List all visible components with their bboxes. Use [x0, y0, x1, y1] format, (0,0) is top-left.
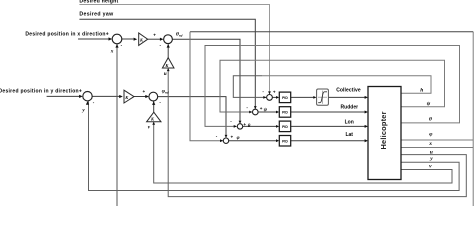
wire: theta feedback left drop into theta sum — [205, 46, 240, 127]
wire: y sum to Kp gain — [92, 95, 120, 97]
sum junction: phi sum — [223, 138, 228, 143]
arrowheads group — [79, 37, 368, 142]
wire: h feedback left drop into collective sum — [233, 76, 266, 98]
svg-text:PID: PID — [282, 96, 288, 100]
wire: PID1 to saturation — [291, 96, 314, 98]
svg-text:Helicopter: Helicopter — [379, 111, 388, 149]
svg-text:Desired position in y directio: Desired position in y direction+ — [0, 89, 82, 95]
svg-text:Lon: Lon — [345, 120, 354, 126]
svg-text:Desired position in x directio: Desired position in x direction+ — [25, 31, 109, 37]
wire: phi output of helicopter — [401, 139, 473, 141]
arrow into psi sum left — [249, 111, 252, 114]
svg-text:h: h — [420, 87, 423, 93]
wire: theta_ref from x inner sum down to theta sum — [172, 39, 240, 123]
arrow into saturation — [313, 96, 316, 99]
svg-text:PID: PID — [282, 111, 288, 115]
sum junction: y outer sum — [83, 92, 92, 101]
sum junction: theta sum — [237, 124, 242, 129]
arrow into helicopter rudder port — [365, 111, 368, 114]
PID controller 2 (rudder) — [279, 107, 290, 118]
svg-text:φ: φ — [237, 136, 240, 141]
sum junction: psi sum — [253, 109, 259, 115]
svg-text:x: x — [110, 48, 114, 54]
wire: h feedback loop right/top — [262, 76, 431, 94]
wire: Kp gain to x inner sum — [148, 38, 161, 40]
saturation block — [317, 89, 329, 105]
PID controller 1 (collective) — [279, 92, 290, 103]
svg-text:Rudder: Rudder — [341, 105, 359, 111]
svg-text:x: x — [428, 141, 432, 147]
arrow into phi sum top — [225, 135, 228, 138]
PID controller 3 (lon) — [279, 121, 290, 132]
svg-text:ψ: ψ — [427, 101, 431, 107]
arrow into theta sum top — [239, 121, 242, 124]
arrow into psi sum top — [254, 106, 257, 109]
svg-text:+: + — [231, 135, 234, 140]
arrow into PID1 — [276, 96, 279, 99]
wire: shared right edge vertical (phi up / x down) — [472, 32, 474, 206]
gain K (v feedback) — [147, 112, 161, 122]
gain Kp (y channel) — [124, 90, 134, 103]
arrow into x inner sum left — [160, 38, 164, 41]
gain Kp (x channel) — [139, 33, 148, 45]
svg-text:Desired height: Desired height — [79, 0, 118, 4]
svg-text:+: + — [243, 122, 246, 127]
PID controller 4 (lat) — [279, 136, 290, 147]
svg-text:y: y — [429, 156, 433, 162]
wire: theta sum to PID3 — [242, 125, 276, 127]
arrow into helicopter lat port — [365, 139, 368, 142]
svg-text:PID: PID — [282, 125, 288, 129]
arrow into x inner sum bottom — [167, 44, 170, 48]
wire: u K gain to x inner sum — [167, 44, 169, 58]
wire: y Kp gain to y inner sum — [134, 96, 146, 98]
wire: v feedback loop from helicopter v output to K gain — [154, 122, 452, 183]
gain K (u feedback) — [162, 58, 174, 68]
wire: y feedback loop from helicopter y output — [89, 101, 460, 190]
arrow into y sum left — [79, 95, 83, 98]
svg-text:Lat: Lat — [345, 132, 353, 138]
wire: desired yaw line to rudder sum — [79, 19, 255, 109]
wire: phi_ref from y inner sum down to phi sum — [158, 97, 226, 138]
wire: desired height line to collective sum — [79, 5, 269, 95]
arrow into y inner sum bottom — [152, 101, 155, 105]
wire: x output of helicopter to right edge — [401, 147, 473, 149]
arrow into x sum bottom — [115, 44, 118, 48]
wire: desired x position input — [78, 38, 110, 40]
wire: psi sum to PID2 — [258, 111, 276, 113]
arrow into v K gain base — [152, 122, 155, 125]
svg-text:u: u — [164, 71, 167, 77]
wire: x feedback vertical into x sum — [116, 44, 118, 206]
sum junction: y inner sum — [149, 92, 158, 101]
wire: desired y position input — [47, 95, 81, 97]
arrow into x sum left — [109, 37, 113, 40]
arrow into u K gain base — [167, 68, 170, 71]
arrow into helicopter collective port — [365, 96, 368, 99]
arrow into collective sum top — [268, 91, 271, 94]
sign labels — [93, 32, 276, 139]
wire: u feedback loop from helicopter u output to K gain — [168, 69, 466, 197]
arrow into PID4 — [276, 139, 279, 142]
svg-text:+: + — [143, 89, 146, 94]
arrow into phi sum left — [220, 139, 223, 142]
arrow into y Kp gain — [119, 95, 123, 98]
arrow into collective sum left — [263, 96, 266, 99]
wire: psi feedback left drop into psi sum — [220, 60, 252, 112]
helicopter plant block — [368, 87, 401, 180]
svg-text:θ: θ — [429, 116, 432, 122]
wire: psi feedback loop right/top — [250, 60, 445, 107]
wire: collective sum to PID1 — [272, 96, 276, 98]
arrow into PID3 — [276, 125, 279, 128]
wire: phi feedback top rail — [190, 31, 473, 33]
sum junction: collective sum — [267, 95, 273, 101]
wire: PID4 to helicopter lat input — [291, 140, 365, 142]
arrow into y sum bottom — [86, 101, 89, 105]
arrow into y inner sum left — [145, 95, 149, 98]
wire: PID3 to helicopter lon input — [291, 125, 365, 127]
arrow into helicopter lon port — [365, 125, 368, 128]
svg-text:θ: θ — [248, 124, 251, 129]
wire: x sum to Kp gain — [122, 38, 134, 40]
svg-text:Desired yaw: Desired yaw — [79, 12, 114, 18]
wire: phi feedback left drop into phi sum — [190, 32, 223, 141]
svg-text:+: + — [153, 32, 156, 37]
wire: theta feedback loop right/top — [240, 46, 460, 123]
arrow into PID2 — [276, 111, 279, 114]
wire: saturation to helicopter collective input — [328, 96, 365, 98]
svg-text:PID: PID — [282, 139, 288, 143]
wire: v K gain to y inner sum — [153, 102, 155, 113]
wire: PID2 to helicopter rudder input — [291, 111, 365, 113]
wire: phi sum to PID4 — [229, 140, 277, 142]
svg-text:+: + — [260, 106, 263, 111]
arrow into x Kp gain — [134, 38, 138, 41]
svg-text:u: u — [430, 149, 433, 155]
sum junction: x inner sum — [164, 35, 173, 44]
svg-text:+: + — [273, 89, 276, 94]
svg-text:Collective: Collective — [336, 88, 361, 94]
arrow into theta sum left — [234, 125, 237, 128]
sum junction: x outer sum — [112, 34, 122, 44]
